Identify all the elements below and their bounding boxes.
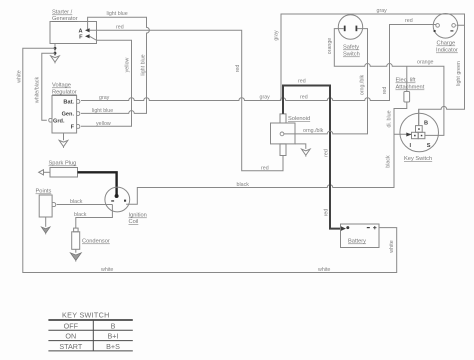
ground below points [41, 227, 50, 234]
wire elec lift top stem to orange [406, 66, 408, 91]
wire stem regulator bottom to ground [63, 133, 65, 140]
label Voltage Regulator [52, 83, 77, 96]
svg-text:gray: gray [377, 8, 388, 14]
svg-text:light green: light green [456, 61, 462, 86]
svg-text:red: red [300, 95, 308, 101]
wire light blue: S/G pin A up over top, down to regulator Gen [81, 17, 149, 113]
svg-text:white: white [16, 70, 22, 82]
connector arrow at battery positive [341, 226, 346, 231]
table row OFF / B [64, 321, 116, 330]
svg-text:red: red [298, 79, 306, 85]
wire solenoid to ground [295, 144, 306, 149]
pin A of starter/generator [78, 28, 89, 34]
key switch circle [400, 113, 439, 152]
label Safety Switch [343, 45, 360, 58]
svg-text:white: white [389, 240, 395, 252]
wire orange: safety switch left down and over to key switch S [334, 29, 444, 136]
solenoid body with top and bottom nubs [271, 114, 296, 156]
svg-text:black: black [70, 199, 83, 205]
wire red thin: junction at 281 to charge indicator left [280, 25, 436, 101]
battery box [341, 224, 380, 248]
safety switch circle [338, 15, 362, 39]
svg-text:Switch: Switch [343, 52, 360, 58]
svg-text:Starter /: Starter / [52, 10, 73, 16]
charge indicator right terminal nub [452, 24, 456, 28]
table row ON / B+I [65, 332, 118, 341]
svg-text:Indicator: Indicator [436, 48, 458, 54]
svg-text:red: red [235, 65, 241, 73]
key switch S contact square [418, 132, 431, 149]
ignition coil circle [105, 187, 130, 212]
wire di. blue: elec lift bottom to key switch I [394, 102, 412, 134]
svg-text:Voltage: Voltage [52, 83, 71, 89]
label Starter / Generator [52, 10, 78, 23]
svg-text:white: white [318, 267, 330, 273]
condensor body [72, 228, 80, 249]
svg-text:Battery: Battery [348, 239, 366, 245]
wire light green: from gray junction down to key switch B [419, 25, 465, 125]
svg-text:orange: orange [417, 60, 434, 66]
svg-text:black: black [74, 212, 87, 218]
svg-text:Ignition: Ignition [129, 213, 147, 219]
points box [39, 195, 52, 217]
svg-text:S: S [427, 143, 431, 149]
svg-text:white/black: white/black [34, 77, 40, 104]
svg-text:START: START [59, 342, 83, 351]
wire stem points to ground [45, 217, 47, 227]
label Ignition Coil [129, 213, 147, 226]
svg-text:B: B [424, 120, 428, 126]
pin Grd. of regulator [49, 118, 65, 124]
svg-text:black: black [237, 182, 250, 188]
charge indicator left terminal nub [436, 24, 440, 28]
svg-text:gray: gray [260, 95, 271, 101]
wire black: points to coil negative [57, 204, 113, 206]
wire black: coil positive to key switch I riser [126, 134, 394, 204]
coil positive terminal dot [124, 200, 126, 202]
svg-text:yellow: yellow [96, 121, 111, 127]
svg-text:yellow: yellow [125, 57, 131, 72]
charge indicator plus dot [434, 30, 436, 32]
svg-text:Bat.: Bat. [63, 100, 74, 106]
svg-text:red: red [261, 165, 269, 171]
ground below solenoid [302, 149, 311, 157]
svg-text:di. blue: di. blue [387, 110, 393, 127]
points terminal nub [52, 203, 56, 207]
wire white/black: junction down to regulator Grd [42, 53, 55, 120]
voltage regulator box [52, 96, 77, 134]
svg-text:Gen.: Gen. [62, 112, 75, 118]
svg-text:Coil: Coil [129, 219, 139, 225]
svg-text:Points: Points [36, 189, 52, 195]
svg-text:Grd.: Grd. [53, 118, 65, 124]
wire red: S/G pin A right, down, to solenoid bottom [90, 30, 283, 171]
svg-text:orng./blk: orng./blk [360, 74, 366, 95]
key switch B stem wire [418, 109, 420, 125]
key switch table header [62, 311, 110, 320]
ground below starter/generator [51, 56, 60, 64]
svg-text:white: white [101, 267, 113, 273]
svg-text:light blue: light blue [92, 108, 113, 114]
ground below condensor [70, 253, 81, 262]
safety switch left contact dash [344, 26, 346, 32]
svg-text:Attachment: Attachment [396, 85, 425, 91]
key switch table grid [48, 320, 132, 351]
battery plus mark [373, 226, 376, 229]
spark plug left lead with connector arrow [39, 170, 50, 175]
spark plug body [50, 168, 78, 178]
svg-text:red: red [323, 209, 329, 217]
svg-text:orng./blk: orng./blk [303, 128, 324, 134]
svg-text:orange: orange [327, 38, 333, 55]
svg-text:B+I: B+I [108, 332, 119, 341]
wire stem condensor to ground [75, 249, 77, 252]
pin Gen. of regulator [62, 112, 80, 118]
svg-text:gray: gray [99, 95, 110, 101]
svg-text:F: F [71, 125, 75, 131]
svg-text:Regulator: Regulator [52, 90, 77, 96]
connector arrow at key switch I [406, 133, 411, 137]
thick red battery cable: solenoid top to battery positive [283, 86, 341, 229]
pin Bat. of regulator [63, 100, 79, 106]
svg-text:F: F [79, 35, 83, 41]
svg-text:Solenoid: Solenoid [288, 116, 310, 122]
svg-text:Generator: Generator [52, 16, 78, 22]
svg-text:red: red [116, 25, 124, 31]
wire black: coil negative down to condensor [76, 205, 113, 229]
elec lift attachment component [404, 92, 410, 103]
key switch B contact square [416, 120, 429, 132]
svg-text:red: red [405, 18, 413, 24]
svg-text:ON: ON [65, 332, 76, 341]
label Charge Indicator [436, 41, 458, 54]
svg-text:light blue: light blue [107, 11, 128, 17]
ground below voltage regulator [59, 140, 68, 148]
safety switch right contact dash [356, 26, 358, 32]
svg-text:light blue: light blue [141, 54, 147, 75]
svg-text:red: red [382, 87, 388, 95]
svg-text:red: red [323, 149, 329, 157]
wire stem from S/G bottom to ground [54, 44, 56, 56]
svg-text:Condensor: Condensor [82, 239, 110, 245]
starter/generator box [50, 22, 97, 44]
wire gray: regulator Bat right, up at 281, along top, to charge indicator right [81, 14, 465, 101]
svg-text:Elec. lift: Elec. lift [396, 78, 416, 84]
svg-text:gray: gray [274, 30, 280, 41]
svg-text:Spark Plug: Spark Plug [49, 161, 77, 167]
wire yellow: S/G pin F down to regulator F [81, 36, 132, 126]
pin F of regulator [71, 125, 80, 131]
svg-text:KEY SWITCH: KEY SWITCH [62, 311, 110, 320]
svg-text:Charge: Charge [437, 41, 456, 47]
key switch I contact square [410, 132, 419, 149]
battery minus dash [367, 227, 370, 228]
table row START / B+S [59, 342, 120, 351]
junction dot upper (white wire) [54, 47, 57, 50]
svg-text:Key Switch: Key Switch [404, 156, 432, 162]
wire white: junction left, down left side, along bottom, up to battery negative [23, 48, 397, 272]
pin F of starter/generator [79, 34, 90, 40]
junction dot lower (white/black wire) [54, 52, 57, 55]
charge indicator circle [433, 13, 458, 38]
svg-text:B: B [111, 321, 116, 330]
svg-text:OFF: OFF [64, 321, 79, 330]
svg-text:black: black [385, 155, 391, 168]
battery positive post dot [346, 226, 349, 229]
svg-text:B+S: B+S [106, 342, 120, 351]
coil negative terminal dash [111, 200, 114, 201]
wire orng./blk: solenoid terminal to safety switch right [284, 29, 368, 134]
svg-text:A: A [78, 28, 82, 34]
svg-text:Safety: Safety [343, 45, 359, 51]
label Elec. lift Attachment [396, 78, 425, 91]
charge indicator minus dash [450, 30, 453, 31]
thick plug wire: spark plug to ignition coil tower [78, 172, 119, 198]
